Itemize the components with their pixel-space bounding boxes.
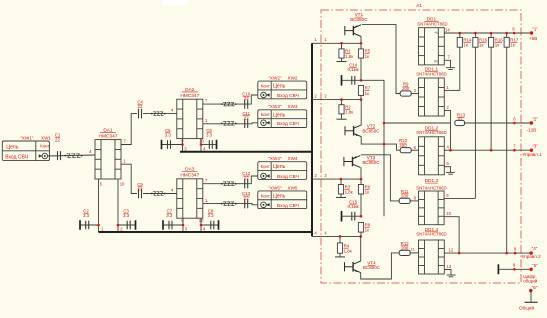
coax plug XW3	[261, 120, 267, 126]
wire R15 to DD1.3 out	[474, 47, 476, 198]
connector XW4	[258, 162, 307, 180]
svg-text:"1": "1"	[532, 26, 538, 31]
attenuator pad DA1-DA2	[153, 112, 164, 116]
resistor R13	[455, 120, 465, 125]
wire VT1 emitter to wire1	[360, 37, 362, 44]
resistor R10	[400, 148, 411, 153]
terminal 1	[530, 31, 533, 34]
svg-text:ВС850С: ВС850С	[362, 160, 380, 165]
svg-text:Конт: Конт	[40, 144, 49, 149]
connector XW5	[258, 191, 307, 209]
svg-text:22: 22	[244, 115, 249, 120]
svg-text:1к: 1к	[495, 43, 499, 48]
svg-text:XW2: XW2	[288, 76, 298, 81]
svg-text:Вход СВЧ: Вход СВЧ	[277, 203, 299, 209]
svg-text:200: 200	[401, 246, 409, 251]
wire VT4 emitter to R12	[361, 253, 400, 279]
wire node C14 to R13 line	[361, 80, 384, 216]
svg-text:"XW1": "XW1"	[20, 135, 34, 140]
svg-text:3.3: 3.3	[123, 213, 130, 218]
wire R7 to VT2 collector	[360, 95, 362, 99]
resistor R2	[341, 100, 343, 105]
attenuator pad DA2 out2	[223, 122, 235, 126]
svg-text:HMC347: HMC347	[99, 133, 118, 139]
svg-text:"XW3": "XW3"	[268, 104, 282, 109]
svg-text:Цепь: Цепь	[273, 164, 286, 170]
resistor R3	[340, 179, 342, 184]
svg-text:14: 14	[445, 28, 450, 33]
svg-text:22: 22	[138, 104, 143, 109]
connector XW1	[2, 141, 49, 161]
wire DA1 pin1 to C9	[121, 164, 177, 193]
svg-text:ВС850С: ВС850С	[363, 265, 381, 270]
resistor R14	[459, 32, 462, 35]
bundle harness vertical	[311, 43, 313, 236]
coax plug XW2	[261, 92, 267, 98]
node 2	[117, 224, 120, 227]
svg-text:Вход СВЧ: Вход СВЧ	[277, 93, 299, 99]
svg-text:HMC347: HMC347	[180, 173, 199, 179]
wire VT3 emitter to wire3	[360, 167, 362, 179]
wire DA1 pin5 down	[98, 179, 100, 232]
switch DA3 HMC347	[177, 179, 203, 218]
capacitor C2 bypass	[80, 224, 99, 226]
svg-text:200: 200	[402, 86, 410, 91]
svg-text:13: 13	[447, 264, 452, 269]
svg-text:SN74AHCT86D: SN74AHCT86D	[416, 71, 446, 76]
wire R17 to ctrl2 line	[506, 47, 508, 253]
svg-text:1,8к: 1,8к	[345, 110, 353, 115]
svg-text:10: 10	[199, 218, 204, 223]
attenuator pad DA2 out1	[223, 102, 235, 106]
switch DA2 HMC347	[177, 99, 203, 138]
digital common bar	[497, 264, 499, 274]
svg-text:Вход СВЧ: Вход СВЧ	[277, 121, 299, 127]
svg-text:200: 200	[399, 143, 407, 148]
xor gate DD1 power	[419, 28, 445, 65]
wire R6 to node C15	[360, 194, 362, 216]
wire 4	[312, 235, 361, 237]
capacitor C1	[58, 151, 61, 160]
wire VT1 collector to R9	[362, 25, 400, 94]
svg-text:XW3: XW3	[288, 104, 298, 109]
wire DA1 pin7 to C4	[121, 114, 177, 145]
coax plug XW4	[261, 173, 267, 179]
capacitor C7 bypass	[163, 224, 183, 226]
transistor VT4	[345, 261, 361, 273]
pin 2 wire down	[444, 110, 450, 150]
switch DA1 HMC347	[95, 140, 121, 179]
wire 1	[312, 42, 361, 44]
svg-text:SN74AHCT86D: SN74AHCT86D	[416, 232, 446, 237]
wire DA3 pin9 down	[182, 218, 184, 232]
pin 12 output to ctrl2	[444, 252, 531, 254]
capacitor C8 bypass	[201, 224, 219, 226]
svg-text:XW4: XW4	[288, 156, 298, 161]
contact dot +5V	[513, 32, 516, 35]
resistor R11	[399, 198, 410, 203]
wire R13 to -12V terminal	[465, 122, 532, 124]
node 1	[97, 224, 100, 227]
svg-text:Конт: Конт	[261, 84, 270, 89]
svg-text:"5": "5"	[532, 263, 538, 268]
svg-text:10: 10	[446, 211, 451, 216]
svg-text:3.3: 3.3	[83, 213, 90, 218]
svg-text:1к: 1к	[365, 190, 369, 195]
svg-text:3.3: 3.3	[166, 213, 173, 218]
svg-text:Общий: Общий	[519, 305, 535, 311]
capacitor C13	[245, 199, 248, 208]
svg-text:ВС850С: ВС850С	[350, 17, 368, 22]
capacitor C4	[137, 109, 143, 119]
pin 14 wire / +5V rail	[444, 32, 531, 34]
svg-text:-12В: -12В	[527, 127, 537, 132]
svg-text:HMC347: HMC347	[180, 93, 199, 99]
xor gate DD1.3	[419, 191, 445, 225]
wire R5 to node C14	[360, 58, 362, 80]
node 4 DA2	[200, 143, 203, 146]
resistor R6	[360, 179, 362, 184]
svg-text:1к: 1к	[510, 43, 514, 48]
resistor R15	[474, 32, 477, 35]
svg-text:22: 22	[55, 137, 60, 142]
node 3 DA2	[181, 143, 184, 146]
pin 9 wire to R15	[444, 197, 475, 199]
resistor R16	[490, 32, 493, 35]
resistor R4	[339, 236, 341, 243]
svg-text:0,1мк: 0,1мк	[347, 204, 358, 209]
svg-text:Вход СВЧ: Вход СВЧ	[277, 174, 299, 180]
wire VT4 collector	[360, 236, 362, 261]
wire R13 feed	[384, 122, 451, 124]
pin 13 ground	[444, 270, 451, 271]
svg-text:0V: 0V	[434, 59, 439, 63]
wire DA2 pin7 to XW2	[203, 95, 258, 104]
svg-text:SN74AHCT86D: SN74AHCT86D	[417, 22, 447, 27]
svg-text:SN74AHCT86D: SN74AHCT86D	[416, 185, 446, 190]
wire DA2 pin1 to XW3	[203, 123, 258, 124]
svg-text:1,8к: 1,8к	[345, 54, 353, 59]
terminal 6	[529, 289, 532, 292]
svg-text:общий: общий	[523, 278, 538, 284]
wire to terminal 5	[498, 268, 531, 270]
svg-text:3.3: 3.3	[206, 133, 213, 138]
svg-text:1к: 1к	[365, 54, 369, 59]
node 4	[200, 224, 203, 227]
wire R16 to ctrl1 line	[490, 47, 492, 150]
connector XW3	[258, 110, 307, 128]
attenuator pad DA3 out2	[223, 202, 235, 206]
capacitor C5 bypass	[162, 144, 183, 146]
svg-text:0,1мк: 0,1мк	[347, 67, 358, 72]
module frame A1	[321, 10, 521, 283]
svg-text:22: 22	[138, 186, 143, 191]
capacitor C10	[245, 100, 248, 109]
terminal 2	[530, 121, 533, 124]
pin 10 wire down	[444, 217, 459, 253]
svg-text:Цепь: Цепь	[273, 84, 286, 90]
capacitor C14	[342, 79, 362, 81]
terminal 5	[529, 268, 532, 271]
svg-text:"6": "6"	[532, 285, 538, 290]
resistor R17	[505, 32, 508, 35]
wire VT2 collector	[360, 100, 362, 125]
capacitor C12	[245, 179, 248, 188]
capacitor C11	[245, 119, 248, 128]
capacitor C15	[342, 215, 362, 217]
capacitor C6 bypass	[201, 144, 217, 146]
wire DA3 pin7 to XW4	[203, 176, 258, 184]
svg-text:ВС850С: ВС850С	[362, 128, 380, 133]
svg-text:3.3: 3.3	[165, 133, 172, 138]
node 3	[182, 224, 185, 227]
svg-text:Цепь: Цепь	[6, 144, 19, 150]
wire VT3 collector to R11	[361, 155, 400, 201]
svg-text:"XW4": "XW4"	[268, 156, 282, 161]
bundle harness bottom	[99, 231, 313, 233]
wire 3	[312, 178, 361, 180]
terminal 4	[529, 251, 532, 254]
wire VT2 emitter to DD1.2 input	[361, 137, 400, 151]
svg-text:Конт: Конт	[261, 112, 270, 117]
resistor R1	[341, 43, 343, 49]
resistor R12	[399, 250, 410, 255]
svg-text:1к: 1к	[479, 43, 483, 48]
wire DA3 pin1 to XW5	[203, 203, 258, 204]
transistor VT2	[345, 125, 361, 137]
xor gate DD1.2	[419, 137, 445, 175]
coax plug XW5	[261, 202, 267, 208]
svg-text:51: 51	[458, 116, 463, 121]
svg-text:12: 12	[449, 247, 454, 252]
resistor R9	[400, 91, 411, 96]
svg-text:Цепь: Цепь	[273, 193, 286, 199]
svg-text:10: 10	[120, 181, 125, 186]
transistor VT3	[344, 156, 360, 168]
attenuator pad DA3 out1	[223, 182, 235, 186]
svg-text:Конт: Конт	[261, 164, 270, 169]
resistor R7	[358, 86, 363, 96]
bundle harness DA2	[180, 151, 312, 153]
connector XW2	[258, 81, 307, 99]
contact dot ctrl1	[513, 149, 516, 152]
svg-text:10: 10	[199, 138, 204, 143]
attenuator pad input	[67, 154, 81, 158]
resistor R5	[360, 43, 362, 49]
svg-text:1к: 1к	[365, 91, 369, 96]
wire DA2 pin9 down	[182, 139, 184, 152]
wire DA2 pin10 down	[200, 139, 202, 152]
svg-text:Управл.2: Управл.2	[522, 254, 542, 259]
svg-text:1,8к: 1,8к	[344, 248, 352, 253]
pin 4 output to ctrl1	[444, 149, 531, 151]
capacitor C9	[137, 189, 143, 199]
svg-text:Управл.1: Управл.1	[523, 152, 543, 157]
svg-text:XW5: XW5	[288, 185, 298, 190]
contact dot	[513, 122, 516, 125]
svg-text:"2": "2"	[532, 116, 538, 121]
svg-text:SN74AHCT86D: SN74AHCT86D	[416, 130, 446, 135]
svg-text:XW1: XW1	[41, 135, 51, 140]
wire DA3 pin10 down	[200, 218, 202, 232]
white patch	[163, 0, 188, 5]
svg-text:+V: +V	[434, 31, 439, 35]
wire 2	[312, 99, 361, 101]
wire DA1 pin10 down	[117, 179, 119, 232]
pin 1 wire to R14	[444, 89, 460, 91]
svg-text:+5В: +5В	[529, 36, 537, 41]
contact dot ctrl2	[514, 252, 517, 255]
terminal 3	[530, 149, 533, 152]
wire R8 to wire4 node	[360, 232, 362, 236]
coax plug XW1 pin	[42, 153, 48, 159]
transistor VT1	[345, 25, 361, 37]
svg-text:A1: A1	[416, 3, 422, 9]
svg-text:Конт: Конт	[261, 193, 270, 198]
wire R14 to DD1.1 out	[459, 47, 461, 90]
svg-text:"3": "3"	[532, 144, 538, 149]
capacitor C3 bypass	[118, 224, 136, 226]
svg-text:Вход СВЧ: Вход СВЧ	[5, 154, 28, 160]
svg-text:22: 22	[244, 176, 249, 181]
svg-text:"XW5": "XW5"	[268, 185, 282, 190]
ground symbol common	[530, 291, 532, 302]
svg-text:1к: 1к	[365, 228, 369, 233]
xor gate DD1.4	[419, 240, 445, 274]
pin 7 ground	[444, 60, 450, 63]
svg-text:1к: 1к	[463, 43, 467, 48]
xor gate DD1.1	[419, 78, 445, 116]
svg-text:"XW2": "XW2"	[268, 76, 282, 81]
svg-text:1,8к: 1,8к	[345, 190, 353, 195]
svg-text:3.3: 3.3	[207, 213, 214, 218]
pin 5 ground	[444, 167, 450, 169]
svg-text:22: 22	[244, 96, 249, 101]
svg-text:22: 22	[244, 196, 249, 201]
svg-text:"4": "4"	[532, 246, 538, 251]
resistor R8	[358, 222, 363, 232]
svg-text:Цепь: Цепь	[273, 112, 286, 118]
wire XW1 to C1	[48, 155, 96, 156]
attenuator pad DA1-DA3	[153, 192, 164, 196]
svg-text:200: 200	[401, 194, 409, 199]
